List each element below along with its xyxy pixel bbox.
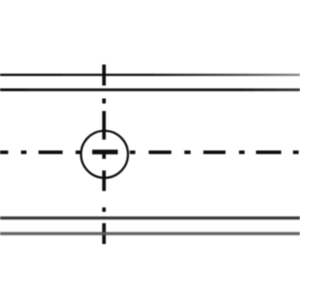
horizontal centerline (dash-dot) — [0, 151, 299, 155]
hole circle — [81, 131, 128, 178]
bottom edge line 2 (lower chamfer edge) — [0, 232, 300, 235]
top edge line 1 (upper chamfer edge) — [0, 74, 300, 76]
hole crosshair horizontal bar — [92, 150, 118, 155]
top edge line 2 (upper body edge) — [0, 88, 300, 91]
vertical centerline (dash-dot) — [102, 65, 106, 245]
bottom edge line 1 (lower body edge) — [0, 217, 300, 220]
